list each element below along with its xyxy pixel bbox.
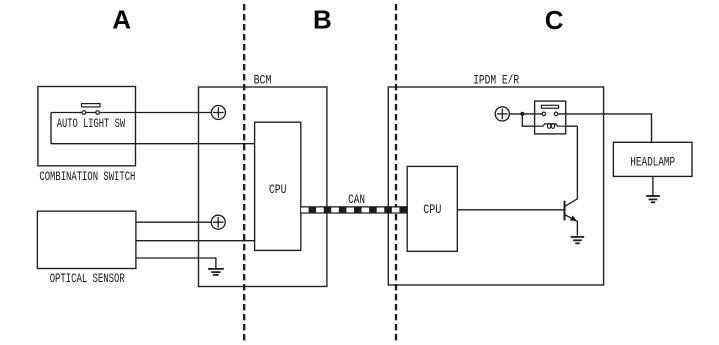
wire: +B3 to relay contact bbox=[509, 113, 542, 115]
transistor Q1 base bar bbox=[564, 201, 566, 221]
svg-text:CAN: CAN bbox=[348, 192, 365, 207]
relay RLY1 contact right bbox=[554, 112, 558, 116]
wire: switch to +B1 bbox=[51, 112, 211, 114]
switch SW1 bar bbox=[82, 104, 101, 107]
transistor Q1 collector bbox=[565, 126, 577, 206]
svg-text:OPTICAL SENSOR: OPTICAL SENSOR bbox=[50, 271, 125, 286]
svg-text:C: C bbox=[545, 5, 564, 35]
box IPDM E/R bbox=[388, 87, 603, 285]
wire: headlamp to ground bbox=[652, 176, 654, 195]
transistor Q1 emitter bbox=[565, 215, 577, 236]
svg-text:B: B bbox=[313, 5, 332, 35]
junction node J1 bbox=[520, 112, 524, 116]
svg-text:CPU: CPU bbox=[423, 202, 441, 217]
svg-text:COMBINATION SWITCH: COMBINATION SWITCH bbox=[39, 169, 135, 184]
switch SW1 contact right bbox=[96, 111, 100, 115]
box CPU (BCM) U1 bbox=[255, 122, 301, 250]
relay RLY1 coil bbox=[535, 124, 566, 129]
wire: junction to relay coil bbox=[522, 114, 534, 126]
switch SW1 contact left bbox=[82, 111, 86, 115]
battery terminal +B1 bbox=[211, 106, 225, 120]
wire: optical sensor to +B2 bbox=[136, 221, 211, 223]
transistor Q1 emitter arrow bbox=[570, 215, 577, 221]
ground G1 (BCM) bbox=[208, 269, 224, 275]
boundary dashed line A/B bbox=[243, 4, 245, 341]
box BCM bbox=[199, 87, 327, 287]
wire: switch lower to BCM CPU bbox=[51, 143, 255, 145]
svg-text:IPDM E/R: IPDM E/R bbox=[473, 72, 519, 87]
svg-text:A: A bbox=[112, 5, 131, 35]
relay RLY1 box bbox=[535, 101, 566, 134]
svg-text:CPU: CPU bbox=[269, 182, 287, 197]
svg-text:HEADLAMP: HEADLAMP bbox=[630, 154, 675, 169]
boundary dashed line B/C bbox=[395, 4, 397, 341]
wire: relay coil to transistor collector bbox=[566, 125, 578, 127]
ground G3 (headlamp) bbox=[646, 196, 660, 202]
wire: IPDM CPU to transistor base bbox=[457, 209, 564, 211]
relay RLY1 contact left bbox=[542, 112, 546, 116]
box COMBINATION SWITCH bbox=[38, 87, 136, 166]
svg-text:BCM: BCM bbox=[254, 72, 272, 87]
relay RLY1 armature bar bbox=[541, 105, 558, 108]
CAN bus checkered line bbox=[301, 206, 407, 213]
box HEADLAMP bbox=[613, 142, 692, 176]
wire: relay contact to headlamp bbox=[558, 114, 652, 142]
box OPTICAL SENSOR bbox=[37, 211, 135, 268]
wire: optical sensor signal to BCM CPU bbox=[136, 240, 255, 242]
ground G2 (transistor emitter) bbox=[571, 237, 585, 243]
battery terminal +B2 bbox=[211, 215, 225, 229]
svg-text:AUTO LIGHT SW: AUTO LIGHT SW bbox=[57, 116, 126, 131]
wire: optical sensor ground bbox=[136, 258, 216, 269]
box CPU (IPDM) U2 bbox=[407, 166, 457, 251]
battery terminal +B3 (IPDM) bbox=[495, 107, 509, 121]
wire: switch loop vertical bbox=[50, 113, 52, 144]
